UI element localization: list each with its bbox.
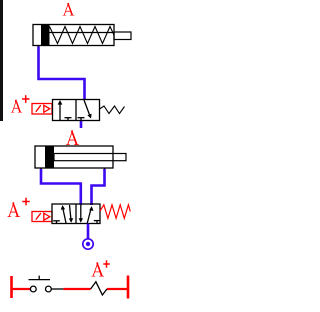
svg-text:A: A <box>66 130 80 150</box>
svg-text:A: A <box>7 202 21 222</box>
svg-text:A: A <box>11 98 23 117</box>
